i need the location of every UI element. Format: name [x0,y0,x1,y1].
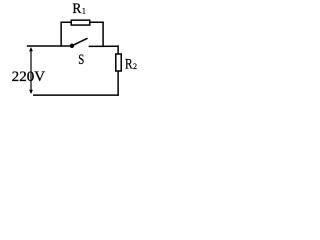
svg-text:S: S [78,52,84,68]
svg-text:1: 1 [82,7,86,16]
svg-text:220V: 220V [12,69,46,85]
svg-text:R: R [72,1,81,17]
svg-text:R: R [125,57,133,73]
svg-text:2: 2 [133,62,137,71]
